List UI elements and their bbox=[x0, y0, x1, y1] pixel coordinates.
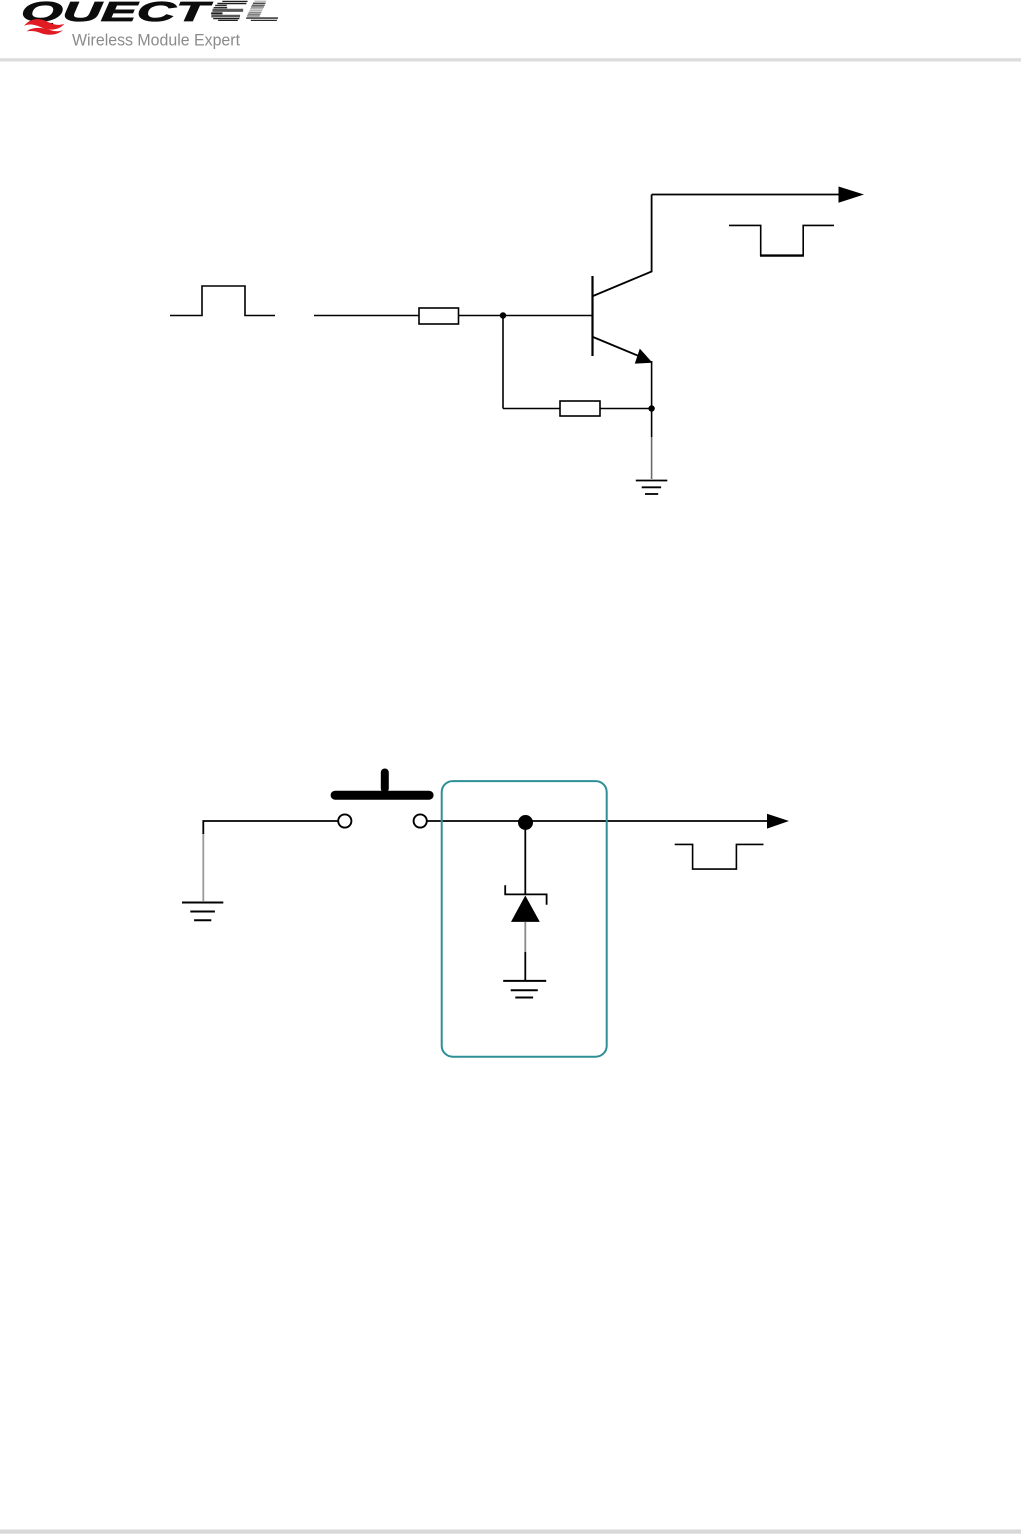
wire TVS diode to ground (faded) bbox=[524, 922, 526, 952]
ground (figure 1) bbox=[636, 481, 668, 495]
switch S1 left terminal bbox=[338, 814, 351, 827]
wire corner to switch bbox=[203, 821, 338, 834]
wire node C to TVS diode bbox=[524, 829, 526, 894]
svg-text:Wireless Module Expert: Wireless Module Expert bbox=[72, 30, 240, 49]
transistor Q1 emitter with arrow bbox=[593, 337, 653, 364]
wire R2 to node B bbox=[600, 408, 652, 410]
wire node B down to ground (faded) bbox=[651, 437, 653, 479]
switch S1 right terminal bbox=[414, 814, 427, 827]
wire switch to output bbox=[427, 820, 768, 822]
ground (figure 2 left) bbox=[182, 903, 223, 921]
transistor Q1 collector bbox=[593, 195, 652, 297]
wire from R1 to transistor base bbox=[459, 315, 592, 317]
ground (figure 2 in box) bbox=[503, 981, 546, 998]
module boundary box bbox=[442, 781, 607, 1057]
output pulse waveform (figure 2) bbox=[675, 844, 764, 869]
resistor R1 bbox=[419, 308, 459, 324]
Quectel logo wordmark bbox=[20, 0, 279, 27]
output pulse waveform (figure 1) bbox=[729, 225, 834, 255]
wire node A to resistor R2 bbox=[503, 408, 560, 410]
wire node A down bbox=[502, 316, 504, 409]
footer rule bbox=[0, 1530, 1021, 1534]
node B junction dot bbox=[648, 405, 654, 411]
node A junction dot bbox=[500, 312, 506, 318]
transistor Q1 base bar bbox=[591, 276, 593, 356]
header rule bbox=[0, 58, 1021, 61]
wire emitter down to node B bbox=[651, 361, 653, 437]
Quectel logo red swoosh bbox=[24, 19, 65, 35]
wire ground up (faded) bbox=[202, 833, 204, 901]
wire collector to output bbox=[652, 194, 840, 196]
switch S1 button stem bbox=[381, 769, 389, 793]
wire from input to resistor R1 bbox=[314, 315, 419, 317]
node C junction dot bbox=[518, 815, 533, 830]
input pulse waveform (figure 1) bbox=[170, 286, 275, 316]
output arrow (figure 2) bbox=[767, 814, 789, 829]
output arrow (figure 1) bbox=[839, 187, 865, 203]
resistor R2 bbox=[560, 401, 600, 416]
switch S1 button bar bbox=[331, 791, 434, 800]
TVS diode D1 triangle bbox=[511, 896, 540, 922]
TVS diode D1 cathode bar bbox=[505, 885, 546, 905]
